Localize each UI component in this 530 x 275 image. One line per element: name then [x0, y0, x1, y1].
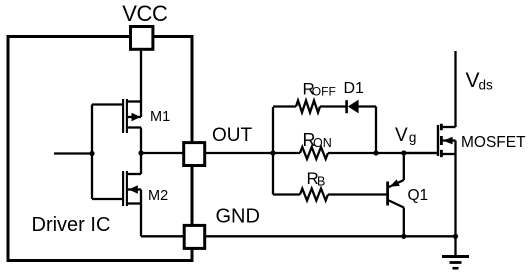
svg-text:Q1: Q1	[408, 187, 429, 204]
svg-text:M1: M1	[150, 109, 170, 125]
svg-text:B: B	[317, 175, 325, 189]
svg-text:D1: D1	[344, 80, 365, 97]
svg-text:ds: ds	[479, 77, 494, 92]
svg-text:V: V	[466, 69, 480, 92]
svg-text:OFF: OFF	[312, 85, 336, 99]
svg-text:g: g	[409, 130, 417, 145]
svg-text:GND: GND	[216, 205, 260, 227]
svg-text:ON: ON	[313, 136, 332, 150]
svg-text:V: V	[395, 125, 408, 146]
svg-text:MOSFET: MOSFET	[461, 134, 526, 151]
svg-text:OUT: OUT	[212, 125, 253, 146]
svg-text:VCC: VCC	[122, 1, 168, 26]
svg-text:Driver IC: Driver IC	[32, 214, 111, 236]
svg-text:M2: M2	[148, 188, 168, 204]
